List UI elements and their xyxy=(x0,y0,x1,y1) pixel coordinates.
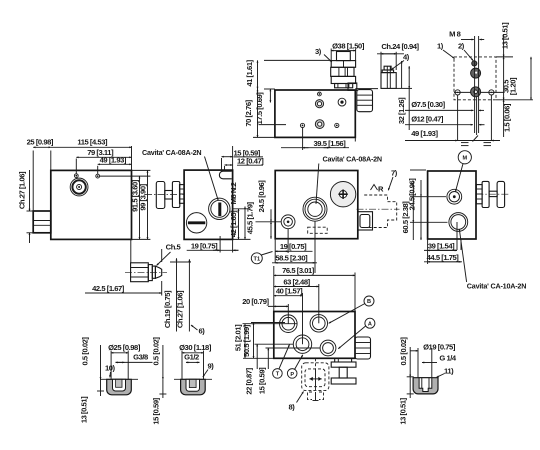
svg-text:P: P xyxy=(290,372,294,378)
svg-text:A: A xyxy=(368,321,372,327)
svg-text:Ch.24 [0.94]: Ch.24 [0.94] xyxy=(381,42,419,51)
svg-text:Ø19 [0.75]: Ø19 [0.75] xyxy=(423,343,456,352)
svg-text:19 [0.75]: 19 [0.75] xyxy=(280,242,307,251)
svg-text:6): 6) xyxy=(199,327,206,336)
svg-text:11): 11) xyxy=(444,367,454,376)
svg-text:45.5 [1.79]: 45.5 [1.79] xyxy=(246,201,255,234)
svg-text:42 [1.65]: 42 [1.65] xyxy=(229,210,238,237)
svg-text:M8 N.2: M8 N.2 xyxy=(229,182,238,204)
svg-text:39.5 [1.56]: 39.5 [1.56] xyxy=(314,139,347,148)
svg-text:13 [0.51]: 13 [0.51] xyxy=(80,396,89,423)
svg-text:50.5 [1.99]: 50.5 [1.99] xyxy=(242,324,251,357)
svg-text:Ø7.5 [0.30]: Ø7.5 [0.30] xyxy=(411,100,445,109)
svg-text:Cavita' CA-10A-2N: Cavita' CA-10A-2N xyxy=(467,282,526,291)
svg-text:T: T xyxy=(276,372,280,378)
svg-text:Ch.5: Ch.5 xyxy=(166,243,182,252)
svg-text:G3/8: G3/8 xyxy=(133,353,148,362)
svg-text:1): 1) xyxy=(437,42,444,51)
svg-text:Cavita' CA-08A-2N: Cavita' CA-08A-2N xyxy=(323,155,382,164)
svg-text:3): 3) xyxy=(315,47,322,56)
svg-text:70 [2.76]: 70 [2.76] xyxy=(244,99,253,126)
svg-text:T1: T1 xyxy=(254,257,261,263)
svg-text:G1/2: G1/2 xyxy=(184,353,199,362)
svg-text:8): 8) xyxy=(289,403,296,412)
svg-text:9): 9) xyxy=(208,362,215,371)
svg-text:44.5 [1.75]: 44.5 [1.75] xyxy=(427,253,460,262)
svg-text:B: B xyxy=(367,299,371,305)
svg-text:10): 10) xyxy=(105,364,116,373)
svg-text:60.5 [2.38]: 60.5 [2.38] xyxy=(401,201,410,234)
svg-text:0.5 [0.02]: 0.5 [0.02] xyxy=(81,337,90,366)
svg-text:41 [1.61]: 41 [1.61] xyxy=(245,59,254,86)
svg-text:12 [0.47]: 12 [0.47] xyxy=(237,157,264,166)
svg-text:39 [1.54]: 39 [1.54] xyxy=(428,242,455,251)
svg-text:0.5 [0.02]: 0.5 [0.02] xyxy=(399,337,408,366)
svg-text:G 1/4: G 1/4 xyxy=(439,354,457,363)
svg-text:19 [0.75]: 19 [0.75] xyxy=(191,241,218,250)
svg-text:49 [1.93]: 49 [1.93] xyxy=(411,129,438,138)
svg-text:20 [0.79]: 20 [0.79] xyxy=(242,297,269,306)
svg-text:51 [2.01]: 51 [2.01] xyxy=(234,324,243,351)
svg-text:[1.20]: [1.20] xyxy=(509,77,518,95)
svg-text:42.5 [1.67]: 42.5 [1.67] xyxy=(92,284,125,293)
svg-text:Ø12 [0.47]: Ø12 [0.47] xyxy=(411,115,444,124)
svg-text:Cavita' CA-08A-2N: Cavita' CA-08A-2N xyxy=(142,148,201,157)
svg-text:M: M xyxy=(462,156,467,162)
svg-text:Ø30 [1.18]: Ø30 [1.18] xyxy=(179,343,212,352)
svg-text:Ch.27 [1.06]: Ch.27 [1.06] xyxy=(18,171,27,209)
svg-text:Ch.19 [0.75]: Ch.19 [0.75] xyxy=(163,290,172,328)
svg-text:58.5 [2.30]: 58.5 [2.30] xyxy=(275,253,308,262)
svg-text:32 [1.26]: 32 [1.26] xyxy=(397,97,406,124)
svg-text:15 [0.59]: 15 [0.59] xyxy=(152,397,161,424)
svg-text:Ch.27 [1.06]: Ch.27 [1.06] xyxy=(176,290,185,328)
svg-text:25 [0.98]: 25 [0.98] xyxy=(27,137,54,146)
svg-text:0.5 [0.02]: 0.5 [0.02] xyxy=(152,337,161,366)
svg-text:40 [1.57]: 40 [1.57] xyxy=(276,287,303,296)
svg-text:2): 2) xyxy=(458,42,465,51)
svg-text:17.5 [0.69]: 17.5 [0.69] xyxy=(255,92,264,125)
svg-text:Ø38 [1.50]: Ø38 [1.50] xyxy=(332,41,365,50)
svg-text:22 [0.87]: 22 [0.87] xyxy=(245,367,254,394)
svg-text:Ø25 [0.98]: Ø25 [0.98] xyxy=(108,343,141,352)
svg-text:76.5 [3.01]: 76.5 [3.01] xyxy=(282,266,315,275)
svg-text:4): 4) xyxy=(403,53,410,62)
svg-text:63 [2.48]: 63 [2.48] xyxy=(283,277,310,286)
svg-text:115 [4.53]: 115 [4.53] xyxy=(77,138,108,147)
svg-text:7): 7) xyxy=(391,169,398,178)
svg-text:24.5 [0.96]: 24.5 [0.96] xyxy=(257,180,266,213)
svg-text:13 [0.51]: 13 [0.51] xyxy=(399,397,408,424)
svg-text:13 [0.51]: 13 [0.51] xyxy=(501,22,510,49)
svg-text:15 [0.59]: 15 [0.59] xyxy=(258,367,267,394)
svg-text:M 8: M 8 xyxy=(449,30,461,39)
